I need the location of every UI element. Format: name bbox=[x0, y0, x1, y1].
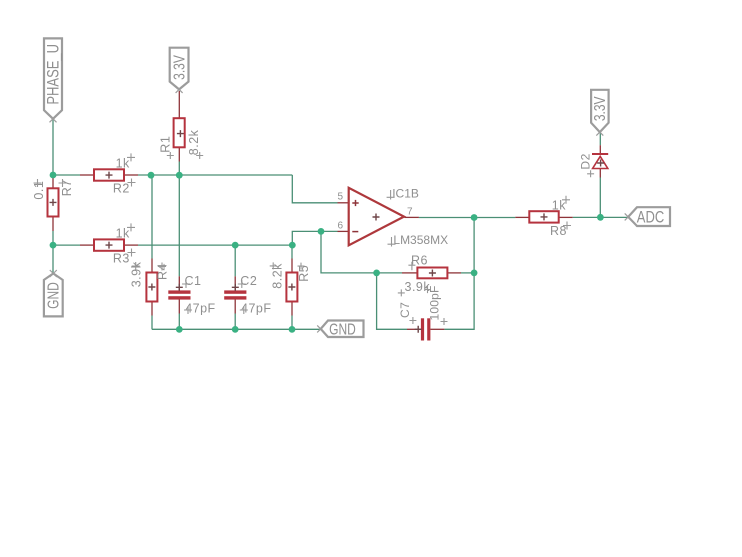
svg-text:D2: D2 bbox=[579, 153, 593, 169]
svg-text:3.3V: 3.3V bbox=[592, 96, 609, 121]
svg-text:1k: 1k bbox=[116, 226, 130, 240]
svg-text:47pF: 47pF bbox=[241, 302, 272, 316]
svg-text:R3: R3 bbox=[113, 251, 130, 265]
svg-text:PHASE_U: PHASE_U bbox=[44, 44, 63, 105]
svg-text:3.9k: 3.9k bbox=[405, 280, 431, 294]
svg-text:3.9k: 3.9k bbox=[130, 261, 144, 287]
svg-text:6: 6 bbox=[337, 221, 343, 232]
svg-text:8.2k: 8.2k bbox=[187, 129, 201, 155]
svg-text:R1: R1 bbox=[159, 136, 173, 153]
svg-text:7: 7 bbox=[407, 206, 413, 217]
svg-text:1k: 1k bbox=[116, 156, 130, 170]
svg-text:R8: R8 bbox=[550, 224, 567, 238]
svg-text:R2: R2 bbox=[113, 181, 130, 195]
svg-text:LM358MX: LM358MX bbox=[393, 233, 448, 247]
svg-text:47pF: 47pF bbox=[185, 302, 216, 316]
svg-text:C7: C7 bbox=[398, 302, 412, 318]
svg-text:5: 5 bbox=[337, 192, 343, 203]
svg-text:GND: GND bbox=[329, 321, 356, 338]
svg-text:IC1B: IC1B bbox=[392, 187, 419, 201]
svg-text:ADC: ADC bbox=[637, 209, 665, 227]
svg-text:R5: R5 bbox=[297, 265, 311, 282]
svg-text:C1: C1 bbox=[185, 274, 202, 288]
svg-text:3.3V: 3.3V bbox=[171, 54, 188, 79]
svg-text:GND: GND bbox=[45, 282, 62, 309]
svg-text:C2: C2 bbox=[240, 274, 257, 288]
svg-text:8.2k: 8.2k bbox=[270, 263, 284, 289]
svg-text:1k: 1k bbox=[552, 198, 566, 212]
